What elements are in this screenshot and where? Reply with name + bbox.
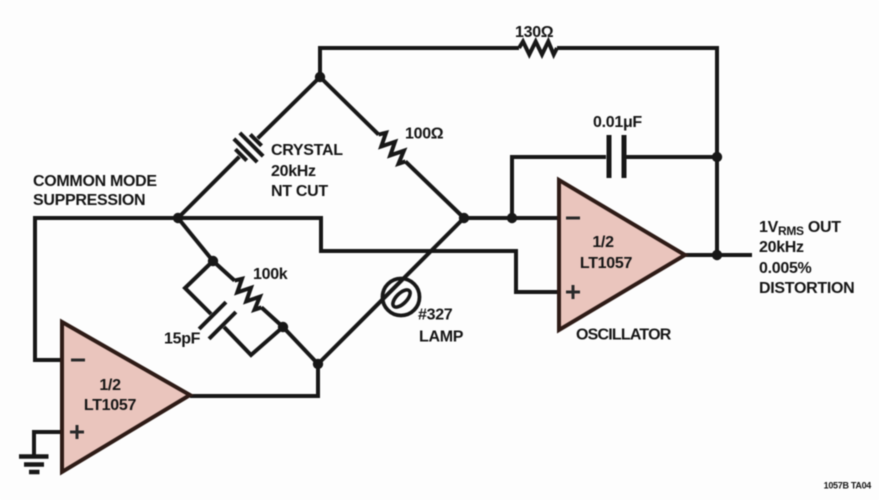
svg-text:20kHz: 20kHz bbox=[271, 163, 316, 180]
svg-text:OSCILLATOR: OSCILLATOR bbox=[576, 327, 672, 344]
svg-text:CRYSTAL: CRYSTAL bbox=[271, 142, 343, 159]
svg-text:1/2: 1/2 bbox=[99, 377, 121, 394]
svg-text:20kHz: 20kHz bbox=[759, 239, 804, 256]
svg-text:100Ω: 100Ω bbox=[405, 126, 444, 143]
svg-text:1/2: 1/2 bbox=[592, 234, 614, 251]
svg-text:LT1057: LT1057 bbox=[580, 255, 633, 272]
svg-text:130Ω: 130Ω bbox=[515, 24, 554, 41]
svg-text:15pF: 15pF bbox=[164, 331, 201, 348]
svg-text:LAMP: LAMP bbox=[419, 329, 464, 346]
svg-text:NT CUT: NT CUT bbox=[271, 183, 328, 200]
svg-text:100k: 100k bbox=[253, 266, 288, 283]
svg-text:#327: #327 bbox=[418, 307, 453, 324]
svg-text:0.01μF: 0.01μF bbox=[593, 114, 642, 131]
svg-text:LT1057: LT1057 bbox=[84, 397, 137, 414]
svg-text:1057B TA04: 1057B TA04 bbox=[824, 481, 872, 491]
svg-text:DISTORTION: DISTORTION bbox=[759, 280, 854, 297]
svg-text:COMMON MODE: COMMON MODE bbox=[33, 173, 157, 190]
svg-text:0.005%: 0.005% bbox=[759, 260, 812, 277]
svg-text:SUPPRESSION: SUPPRESSION bbox=[33, 192, 145, 209]
